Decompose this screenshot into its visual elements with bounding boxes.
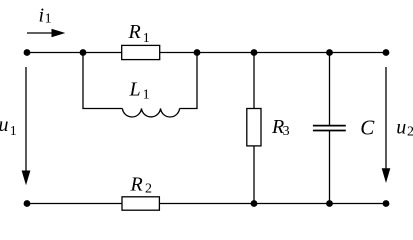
svg-text:L: L	[129, 78, 141, 100]
svg-text:i: i	[39, 5, 45, 27]
svg-text:u: u	[396, 116, 406, 138]
svg-text:u: u	[0, 114, 9, 136]
svg-text:C: C	[360, 115, 375, 139]
svg-text:R: R	[130, 174, 143, 196]
svg-text:1: 1	[143, 31, 150, 46]
svg-text:1: 1	[45, 12, 52, 27]
svg-text:3: 3	[283, 124, 290, 139]
svg-text:1: 1	[143, 88, 150, 103]
svg-text:1: 1	[10, 124, 17, 139]
svg-text:2: 2	[407, 124, 413, 139]
svg-text:2: 2	[145, 182, 152, 197]
svg-text:R: R	[128, 21, 141, 43]
